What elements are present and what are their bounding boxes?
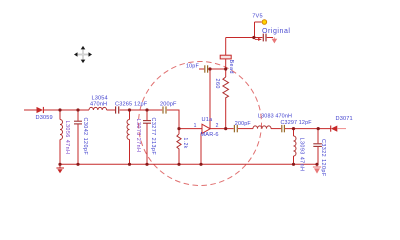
svg-text:200pF: 200pF xyxy=(235,121,252,127)
svg-text:C3265 12pF: C3265 12pF xyxy=(115,102,148,108)
svg-text:C3277 213pF: C3277 213pF xyxy=(150,118,156,156)
svg-text:1.2k: 1.2k xyxy=(182,138,188,149)
svg-text:L3073 27nH: L3073 27nH xyxy=(135,119,141,153)
svg-text:1: 1 xyxy=(194,123,197,129)
svg-text:C3042 120pF: C3042 120pF xyxy=(82,118,88,156)
svg-text:MAR-6: MAR-6 xyxy=(201,132,219,138)
svg-text:C3322 120pF: C3322 120pF xyxy=(320,139,326,177)
svg-text:260: 260 xyxy=(214,79,220,89)
svg-text:L3083 470nH: L3083 470nH xyxy=(258,114,292,120)
svg-text:Bead: Bead xyxy=(228,60,234,74)
svg-text:D3071: D3071 xyxy=(336,116,353,122)
svg-text:Original: Original xyxy=(262,28,291,35)
svg-text:470nH: 470nH xyxy=(90,102,107,108)
svg-text:7V5: 7V5 xyxy=(252,13,262,19)
svg-text:L3093 47nH: L3093 47nH xyxy=(299,138,305,172)
svg-text:D3059: D3059 xyxy=(36,115,53,121)
svg-text:200pF: 200pF xyxy=(160,102,177,108)
svg-text:10pF: 10pF xyxy=(186,63,199,69)
svg-text:L3056 47nH: L3056 47nH xyxy=(64,121,70,155)
svg-text:2: 2 xyxy=(216,123,219,129)
svg-text:C3297 12pF: C3297 12pF xyxy=(281,120,313,126)
svg-text:U1a: U1a xyxy=(202,117,213,123)
